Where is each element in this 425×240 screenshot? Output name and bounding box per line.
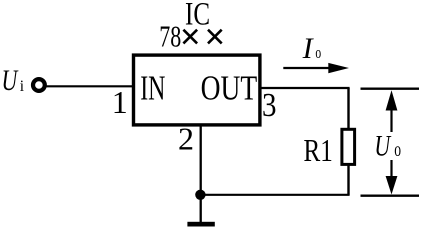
resistor R1 [342, 129, 355, 164]
junction dot [195, 190, 205, 200]
svg-text:78: 78 [159, 20, 181, 54]
svg-text:U: U [2, 64, 19, 97]
svg-text:R1: R1 [304, 132, 333, 168]
op-amp-style IC box U1 (78xx regulator) [134, 55, 260, 125]
label Ui [2, 64, 25, 97]
svg-text:o: o [394, 140, 401, 161]
Uo measurement top bar [361, 88, 420, 90]
Uo down arrow [386, 160, 398, 195]
svg-text:i: i [20, 78, 25, 95]
current arrow Io [283, 63, 349, 73]
svg-text:o: o [315, 43, 321, 62]
svg-text:3: 3 [262, 87, 277, 124]
Uo up arrow [386, 90, 398, 132]
node Ui input terminal circle [33, 79, 45, 91]
wire pin 3 output [261, 87, 350, 89]
value label 78xx [159, 20, 221, 54]
ground [187, 222, 214, 227]
wire pin 2 down to junction [200, 126, 202, 195]
label Io [302, 32, 322, 65]
svg-text:U: U [374, 130, 391, 163]
wire junction to R1 bottom [200, 194, 349, 196]
svg-text:IC: IC [185, 0, 210, 32]
svg-text:2: 2 [178, 120, 194, 156]
label Uo [374, 130, 401, 163]
wire input terminal to pin 1 [45, 85, 134, 87]
wire junction to ground [200, 195, 202, 222]
svg-text:1: 1 [112, 84, 128, 120]
svg-text:IN: IN [140, 69, 165, 108]
Uo measurement bottom bar [361, 195, 420, 197]
wire R1 branch vertical [347, 88, 349, 195]
svg-text:OUT: OUT [201, 69, 258, 108]
